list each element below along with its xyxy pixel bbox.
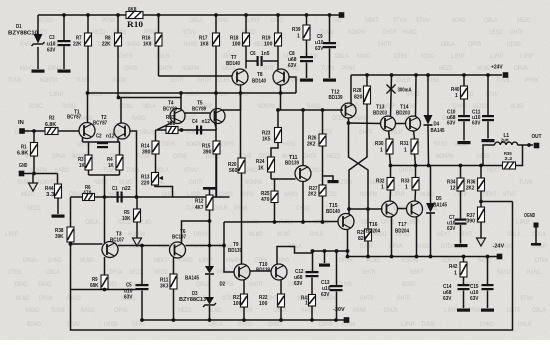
- resistor R33: [415, 166, 417, 178]
- svg-text:BCWO: BCWO: [421, 53, 435, 60]
- resistor R27: [319, 185, 326, 196]
- node C9 top: [328, 13, 332, 17]
- node C15 top: [486, 255, 490, 259]
- svg-text:C3: C3: [49, 35, 55, 41]
- svg-text:OBLA: OBLA: [142, 103, 156, 110]
- svg-text:CHNO: CHNO: [244, 167, 258, 174]
- svg-text:WLMD: WLMD: [16, 295, 30, 302]
- resistor R3: [88, 142, 90, 155]
- capacitor C8 below R39: [306, 40, 308, 56]
- resistor R11: [170, 274, 177, 289]
- svg-text:LIRP: LIRP: [5, 231, 19, 238]
- node D3 bottom: [208, 318, 212, 322]
- svg-text:TUVB: TUVB: [519, 179, 533, 186]
- wire T3 T6 line: [118, 245, 170, 247]
- svg-text:DRVA: DRVA: [109, 269, 123, 276]
- svg-text:390: 390: [203, 150, 211, 156]
- svg-text:KWAD: KWAD: [26, 307, 40, 314]
- resistor R26: [322, 110, 324, 134]
- ground for C14: [457, 309, 470, 312]
- svg-text:NOKPM: NOKPM: [348, 29, 365, 36]
- svg-text:BD140: BD140: [252, 79, 266, 85]
- wire crossover left: [349, 123, 369, 209]
- svg-text:BCY87: BCY87: [67, 115, 81, 121]
- svg-text:D4: D4: [434, 122, 440, 128]
- node +24V terminal: [503, 72, 509, 78]
- svg-text:DRVA: DRVA: [194, 231, 208, 238]
- node R16 top: [157, 13, 161, 17]
- svg-text:-30V: -30V: [333, 307, 345, 313]
- wire T1 emitter: [82, 137, 84, 142]
- wire T16 emitter: [391, 217, 393, 257]
- svg-text:BCY89: BCY89: [163, 107, 177, 113]
- node input junction: [32, 129, 36, 133]
- svg-text:BD204: BD204: [366, 229, 380, 235]
- svg-text:470: 470: [261, 197, 269, 203]
- svg-text:GHTR: GHTR: [359, 129, 373, 136]
- svg-text:D1: D1: [16, 24, 22, 30]
- svg-text:DVLR: DVLR: [214, 205, 228, 212]
- resistor R25: [274, 179, 276, 191]
- svg-text:MEZO: MEZO: [89, 91, 103, 98]
- wire R38 column top: [70, 197, 72, 227]
- wire T14 collector: [415, 75, 418, 117]
- resistor R44: [57, 174, 59, 185]
- resistor R35: [503, 162, 516, 169]
- wire T16 T17 link: [398, 208, 407, 210]
- svg-text:GHTR: GHTR: [507, 307, 521, 314]
- wire T13 base line: [349, 122, 382, 125]
- resistor R41: [311, 278, 313, 295]
- node R7 top: [86, 13, 90, 17]
- svg-text:KWAD: KWAD: [14, 281, 28, 288]
- transistor T7: [232, 69, 248, 85]
- wire R36 to loop: [481, 201, 513, 203]
- svg-text:OPIS: OPIS: [319, 321, 333, 328]
- svg-text:DVLR: DVLR: [310, 231, 324, 238]
- svg-text:R28: R28: [353, 88, 361, 94]
- ground for C10: [458, 141, 471, 144]
- wire T7 emitter: [240, 85, 242, 158]
- node C5 bottom: [140, 318, 144, 322]
- svg-text:1: 1: [454, 271, 457, 277]
- svg-text:HARO: HARO: [284, 191, 298, 198]
- diode D1: [37, 15, 39, 34]
- svg-text:KWAD: KWAD: [357, 53, 371, 60]
- resistor R39: [306, 15, 308, 25]
- svg-text:LIRP: LIRP: [406, 219, 420, 226]
- svg-text:BD139: BD139: [256, 268, 270, 274]
- svg-text:OGND: OGND: [524, 213, 535, 219]
- svg-text:NEKT: NEKT: [94, 179, 108, 186]
- svg-text:MEZO: MEZO: [178, 307, 192, 314]
- svg-text:MEZO: MEZO: [154, 269, 168, 276]
- node T1 collector junction: [86, 91, 90, 95]
- svg-text:RASO: RASO: [67, 295, 81, 302]
- node R25 bottom: [273, 220, 277, 224]
- svg-text:63V: 63V: [447, 121, 456, 127]
- svg-text:BA145: BA145: [431, 128, 445, 134]
- node D2 column: [208, 244, 212, 248]
- svg-text:RASO: RASO: [478, 257, 492, 264]
- transistor T1: [79, 123, 95, 139]
- wire OGND stub: [535, 228, 537, 244]
- node T5 collector join: [239, 91, 243, 95]
- svg-text:MEZO: MEZO: [327, 153, 341, 160]
- svg-text:6.8K: 6.8K: [17, 151, 28, 157]
- svg-text:1: 1: [305, 301, 308, 307]
- svg-text:STVU: STVU: [520, 295, 534, 302]
- svg-text:22K: 22K: [102, 42, 111, 48]
- node T11 collector: [301, 108, 305, 112]
- wire T11 collector: [302, 110, 304, 166]
- svg-text:R31: R31: [400, 141, 408, 147]
- svg-text:BD140: BD140: [226, 61, 240, 67]
- svg-text:220: 220: [141, 181, 149, 187]
- svg-text:2K2: 2K2: [466, 186, 474, 192]
- svg-text:TUVB: TUVB: [51, 307, 65, 314]
- svg-text:BD139: BD139: [285, 161, 299, 167]
- node T9 drop top: [222, 244, 226, 248]
- node D4 top: [426, 73, 430, 77]
- svg-text:n12: n12: [202, 119, 210, 125]
- svg-text:STVU: STVU: [393, 17, 407, 24]
- resistor R40: [463, 75, 465, 86]
- svg-text:STVU: STVU: [183, 29, 197, 36]
- node C12 top: [311, 249, 315, 253]
- svg-text:STVU: STVU: [66, 321, 80, 328]
- svg-text:D5: D5: [436, 196, 442, 202]
- svg-text:OTEK: OTEK: [394, 53, 408, 60]
- svg-text:D2: D2: [220, 282, 226, 288]
- svg-text:HARO: HARO: [126, 41, 140, 48]
- svg-text:PRNK: PRNK: [342, 65, 356, 72]
- wire lower feedback line: [71, 289, 136, 291]
- svg-text:GHTR: GHTR: [260, 65, 274, 72]
- svg-text:820: 820: [358, 236, 366, 242]
- node T12 emitter: [347, 121, 351, 125]
- svg-text:470: 470: [83, 191, 91, 197]
- wire T12 base line: [278, 109, 343, 111]
- resistor R8: [117, 15, 119, 33]
- wire R26 R27 mid: [322, 146, 324, 185]
- node R12 T6 collector: [208, 219, 212, 223]
- wire T1 collector: [87, 93, 89, 123]
- resistor R7: [87, 15, 89, 33]
- svg-text:GHTR: GHTR: [189, 179, 203, 186]
- svg-text:LIRP: LIRP: [516, 219, 530, 226]
- svg-text:63V: 63V: [294, 281, 303, 287]
- diode D5: [430, 166, 432, 204]
- wire T2 emitter: [117, 139, 119, 143]
- ground for C11: [482, 139, 495, 142]
- transistor T14: [406, 116, 421, 131]
- wire T12 emitter: [348, 118, 350, 123]
- capacitor C3: [63, 15, 65, 40]
- node OUT terminal: [534, 143, 540, 149]
- ground for C8: [300, 79, 313, 82]
- svg-text:1: 1: [405, 185, 408, 191]
- resistor R20: [238, 158, 245, 173]
- svg-text:BD139: BD139: [228, 248, 242, 254]
- svg-text:GHTR: GHTR: [170, 77, 184, 84]
- wire T9 to T10: [250, 270, 271, 272]
- wire top supply rail right: [143, 14, 340, 16]
- svg-text:OBLA: OBLA: [46, 269, 60, 276]
- node top rail terminal: [339, 12, 345, 18]
- node T15 emitter tap: [346, 249, 350, 253]
- svg-text:NEKT: NEKT: [483, 191, 497, 198]
- wire top supply rail left: [38, 14, 126, 16]
- wire T16 base line: [349, 208, 383, 210]
- svg-text:CHNO: CHNO: [48, 257, 62, 264]
- svg-text:BCWO: BCWO: [452, 17, 466, 24]
- svg-text:100: 100: [264, 42, 272, 48]
- svg-text:UESO: UESO: [489, 29, 503, 36]
- resistor R43: [166, 127, 178, 134]
- svg-text:DRVA: DRVA: [39, 295, 53, 302]
- wire feedback drop to T3 collector: [104, 175, 106, 243]
- svg-text:390: 390: [142, 150, 150, 156]
- svg-text:1K5: 1K5: [262, 137, 270, 143]
- svg-text:LIRP: LIRP: [451, 53, 465, 60]
- wire T15 base line: [224, 221, 338, 224]
- wire T5 emitter: [215, 122, 217, 130]
- diode D4: [427, 75, 429, 115]
- capacitor C14: [458, 284, 470, 286]
- resistor R36: [480, 166, 482, 179]
- svg-text:BC107: BC107: [172, 235, 186, 241]
- svg-text:UESO: UESO: [104, 321, 118, 328]
- svg-text:OTEK: OTEK: [217, 77, 231, 84]
- svg-text:BZY88C10: BZY88C10: [8, 31, 38, 37]
- inductor L1: [483, 145, 495, 166]
- resistor R2: [45, 128, 58, 135]
- node T11 emitter: [301, 220, 305, 224]
- node R22 bottom: [279, 318, 283, 322]
- svg-text:RASO: RASO: [81, 307, 95, 314]
- svg-text:LIRP: LIRP: [401, 321, 415, 328]
- svg-text:GHTR: GHTR: [510, 29, 524, 36]
- svg-text:820: 820: [354, 95, 362, 101]
- svg-text:KWAD: KWAD: [226, 257, 240, 264]
- node R27 bottom: [321, 220, 325, 224]
- svg-text:1: 1: [381, 185, 384, 191]
- svg-text:OBLA: OBLA: [484, 17, 498, 24]
- node R17 mid: [214, 91, 218, 95]
- wire T2 base feedback: [130, 131, 137, 197]
- wire T8 emitter: [280, 85, 282, 110]
- svg-text:LIRP: LIRP: [490, 53, 504, 60]
- svg-text:1n5: 1n5: [261, 51, 269, 57]
- wire R16 to T7 base line: [159, 75, 233, 77]
- svg-text:NOKPM: NOKPM: [40, 77, 57, 84]
- node R19 top: [276, 13, 280, 17]
- svg-text:OBLA: OBLA: [273, 307, 287, 314]
- svg-text:GHTR: GHTR: [360, 295, 374, 302]
- svg-text:GHTR: GHTR: [303, 153, 317, 160]
- svg-text:OTEK: OTEK: [441, 243, 455, 250]
- wire R43 C4 emitter line: [156, 129, 217, 131]
- wire T17 collector: [414, 190, 417, 201]
- svg-text:OBLA: OBLA: [85, 219, 99, 226]
- svg-text:PRNK: PRNK: [353, 307, 367, 314]
- svg-text:GHTR: GHTR: [397, 295, 411, 302]
- resistor R17 long column: [215, 15, 217, 33]
- resistor R42: [463, 257, 465, 263]
- svg-text:RASO: RASO: [434, 141, 448, 148]
- node R36 top: [479, 164, 483, 168]
- svg-text:63V: 63V: [124, 295, 133, 301]
- svg-text:22K: 22K: [73, 42, 82, 48]
- svg-text:R2: R2: [49, 116, 55, 122]
- svg-text:1: 1: [455, 93, 458, 99]
- earth symbol below gnd node: [32, 174, 34, 184]
- svg-text:BD139: BD139: [329, 95, 343, 101]
- capacitor C7: [455, 219, 467, 221]
- wire T6 emitter: [173, 258, 175, 275]
- node OGND terminal: [534, 223, 539, 228]
- svg-text:HARO: HARO: [184, 41, 198, 48]
- ground stub lower mid: [324, 251, 326, 263]
- svg-text:NEKT: NEKT: [365, 17, 379, 24]
- svg-text:TUVB: TUVB: [239, 307, 253, 314]
- svg-text:GND: GND: [19, 163, 27, 169]
- svg-text:RASO: RASO: [497, 269, 511, 276]
- node C11 top: [486, 73, 490, 77]
- node fuse top: [390, 73, 394, 77]
- arrow to negative rail below R5: [133, 238, 142, 246]
- node T14 collector: [414, 73, 418, 77]
- transistor T2: [114, 123, 130, 139]
- resistor R16: [158, 15, 160, 33]
- node T4 collector: [179, 91, 183, 95]
- svg-text:OPIS: OPIS: [221, 141, 235, 148]
- capacitor C5: [141, 246, 143, 285]
- svg-text:NOKPM: NOKPM: [436, 153, 453, 160]
- wire ground line: [24, 173, 58, 175]
- transistor T6: [170, 242, 186, 258]
- svg-text:BCWO: BCWO: [27, 321, 41, 328]
- transistor T3: [102, 242, 118, 258]
- svg-text:1: 1: [297, 34, 300, 40]
- resistor R22: [278, 294, 285, 307]
- svg-text:OBLA: OBLA: [196, 281, 210, 288]
- svg-text:PRNK: PRNK: [279, 219, 293, 226]
- resistor R15: [213, 141, 220, 154]
- svg-text:63V: 63V: [47, 48, 56, 54]
- svg-text:GHTR: GHTR: [159, 65, 173, 72]
- svg-text:NEKT: NEKT: [410, 269, 424, 276]
- svg-text:3.3: 3.3: [46, 192, 54, 198]
- svg-text:GHTR: GHTR: [197, 77, 211, 84]
- svg-text:DRVA: DRVA: [339, 257, 353, 264]
- svg-text:GHTR: GHTR: [399, 167, 413, 174]
- svg-text:BZY88C13: BZY88C13: [179, 297, 206, 303]
- svg-text:63V: 63V: [472, 121, 481, 127]
- node OUT junction: [527, 143, 531, 147]
- wire T3 emitter: [104, 257, 106, 275]
- svg-text:OBLA: OBLA: [441, 41, 455, 48]
- svg-text:C2: C2: [96, 134, 102, 140]
- transistor T12: [341, 103, 356, 118]
- svg-text:WLMD: WLMD: [420, 191, 434, 198]
- resistor R29: [367, 209, 369, 229]
- svg-text:1K8: 1K8: [200, 42, 208, 48]
- node R17 top: [214, 13, 218, 17]
- svg-text:WLMD: WLMD: [249, 231, 263, 238]
- node R31 bottom: [414, 164, 418, 168]
- svg-text:TUVB: TUVB: [321, 65, 335, 72]
- svg-text:R30: R30: [375, 141, 383, 147]
- svg-text:OUT: OUT: [532, 134, 543, 140]
- wire outer loop: [71, 202, 513, 331]
- capacitor C6: [246, 60, 257, 62]
- capacitor C12: [312, 251, 314, 271]
- svg-text:OTEK: OTEK: [339, 179, 353, 186]
- svg-text:DVLR: DVLR: [397, 77, 411, 84]
- svg-text:R42: R42: [449, 264, 457, 270]
- resistor R24: [268, 157, 275, 172]
- node D4 D5 junction: [427, 164, 431, 168]
- svg-text:2.2: 2.2: [505, 156, 513, 162]
- svg-text:BCWO: BCWO: [29, 103, 43, 110]
- node R11 bottom: [172, 318, 176, 322]
- ground for R44: [52, 215, 65, 218]
- svg-text:UESO: UESO: [507, 41, 521, 48]
- svg-text:OPIS: OPIS: [276, 257, 290, 264]
- svg-text:BCWO: BCWO: [402, 281, 416, 288]
- svg-text:39K: 39K: [55, 234, 64, 240]
- transistor T17: [407, 201, 423, 217]
- capacitor C10: [458, 115, 470, 117]
- svg-text:OBLA: OBLA: [335, 53, 349, 60]
- arrow R37 to negative rail: [477, 238, 486, 246]
- resistor R34: [460, 166, 462, 179]
- resistor R31: [414, 131, 415, 139]
- ground for D1: [32, 70, 45, 73]
- svg-text:OPIS: OPIS: [173, 153, 187, 160]
- resistor R28: [366, 75, 368, 86]
- wire T4 emitter: [158, 123, 173, 130]
- wire R13 top from R14: [154, 172, 157, 174]
- node R9 bottom: [103, 288, 107, 292]
- node feedback line cross: [103, 195, 107, 199]
- svg-text:KWAD: KWAD: [191, 243, 205, 250]
- svg-text:OTEK: OTEK: [8, 269, 22, 276]
- wire T4-T5 base link: [185, 112, 210, 114]
- svg-text:PRNK: PRNK: [525, 77, 539, 84]
- svg-text:63V: 63V: [443, 296, 452, 302]
- svg-text:n22: n22: [122, 186, 130, 192]
- svg-text:STVU: STVU: [184, 167, 198, 174]
- fuse F1 300mA: [391, 75, 392, 117]
- svg-text:HARO: HARO: [403, 29, 417, 36]
- svg-text:HARO: HARO: [527, 269, 541, 276]
- svg-text:KWAD: KWAD: [186, 91, 200, 98]
- resistor R4: [119, 142, 121, 155]
- svg-text:IN: IN: [18, 120, 24, 126]
- svg-text:KWAD: KWAD: [38, 281, 52, 288]
- resistor R23: [275, 128, 282, 143]
- svg-text:T17: T17: [398, 222, 406, 228]
- wire T9 emitter: [243, 280, 245, 294]
- svg-text:LIRP: LIRP: [199, 257, 213, 264]
- wire T5 collector link: [222, 93, 241, 110]
- svg-text:GHTR: GHTR: [362, 269, 376, 276]
- svg-text:1K: 1K: [258, 166, 264, 172]
- node D5 bottom: [429, 255, 433, 259]
